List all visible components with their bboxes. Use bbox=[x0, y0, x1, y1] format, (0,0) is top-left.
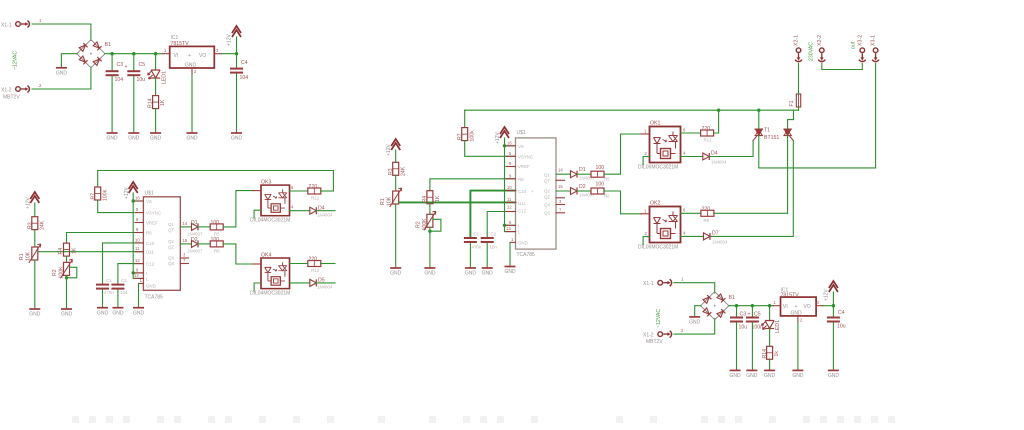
pin number 15 bbox=[558, 184, 563, 189]
svg-text:220: 220 bbox=[702, 126, 711, 132]
label R3 bbox=[388, 168, 394, 175]
svg-text:DIL06MOC3021M: DIL06MOC3021M bbox=[638, 245, 678, 251]
pin name Q2 bbox=[544, 189, 550, 194]
value 10K bbox=[387, 196, 393, 206]
svg-text:3: 3 bbox=[559, 199, 562, 204]
svg-text:R1: R1 bbox=[380, 198, 386, 205]
pin stub OK4-1 bbox=[253, 263, 261, 265]
svg-text:1N4004: 1N4004 bbox=[711, 160, 727, 165]
diode D7 bbox=[704, 233, 711, 240]
wire R2 wiper loop bbox=[430, 219, 441, 231]
pin name Q2b bbox=[544, 195, 550, 200]
wire R1 to gnd bbox=[34, 260, 36, 309]
value 220 bbox=[702, 126, 711, 132]
bridge rectifier B1 bbox=[701, 292, 729, 320]
label C3 bbox=[740, 312, 747, 318]
pin number 1 bbox=[774, 300, 777, 305]
svg-text:VSYNC: VSYNC bbox=[518, 155, 533, 160]
gate lead T2 bbox=[790, 137, 793, 141]
svg-text:+12V: +12V bbox=[124, 187, 130, 199]
svg-text:9: 9 bbox=[136, 227, 139, 232]
resistor R3 bbox=[393, 162, 399, 175]
label X3-1 bbox=[871, 35, 877, 46]
wire R2 to gnd bbox=[66, 275, 68, 309]
junction node VS bbox=[132, 199, 135, 202]
pin stub OK2-2 tail bbox=[643, 237, 649, 245]
svg-text:R14: R14 bbox=[148, 98, 154, 108]
svg-text:BT151: BT151 bbox=[764, 135, 779, 141]
pin stub QZ bbox=[180, 263, 188, 265]
pin number 2 bbox=[681, 328, 684, 333]
svg-text:12: 12 bbox=[135, 258, 140, 263]
svg-text:OK3: OK3 bbox=[261, 180, 271, 186]
label C5 bbox=[139, 62, 146, 68]
svg-text:C12: C12 bbox=[518, 209, 527, 214]
pin name C10 bbox=[146, 241, 155, 246]
wire VS pin bbox=[505, 145, 516, 147]
svg-text:220: 220 bbox=[702, 206, 711, 212]
pin stub GND bbox=[191, 68, 193, 74]
wire C2 to gnd bbox=[117, 290, 119, 308]
ground bbox=[133, 308, 145, 317]
svg-text:QT: QT bbox=[544, 179, 550, 184]
value 24K bbox=[40, 220, 46, 230]
svg-text:8: 8 bbox=[509, 161, 512, 166]
value 100K bbox=[59, 266, 65, 279]
label C1 bbox=[474, 232, 480, 237]
label R1 bbox=[19, 253, 25, 260]
label C3 bbox=[117, 62, 124, 68]
op-amp U$1 TCA785 box bbox=[143, 197, 180, 290]
pin stub VI bbox=[774, 305, 781, 307]
wire T1 MT2 to rail bbox=[758, 110, 760, 128]
junction node I bbox=[132, 271, 135, 274]
ground bbox=[56, 68, 68, 77]
svg-text:C4: C4 bbox=[241, 60, 248, 66]
svg-text:24K: 24K bbox=[401, 166, 407, 176]
ground bbox=[746, 370, 758, 379]
wire T1 MT1 down bbox=[759, 136, 876, 168]
wire OK4 to D5 bbox=[290, 282, 310, 284]
pin name QU bbox=[544, 203, 550, 208]
junction node rail T1 bbox=[757, 109, 760, 112]
svg-text:R3: R3 bbox=[388, 168, 394, 175]
svg-text:1: 1 bbox=[164, 48, 167, 53]
capacitor C4 bbox=[827, 317, 840, 323]
pin stub VSYNC bbox=[135, 212, 143, 214]
svg-text:2: 2 bbox=[681, 328, 684, 333]
pin stub VS bbox=[135, 200, 143, 202]
svg-text:QS: QS bbox=[168, 261, 174, 266]
net label 230VAC bbox=[809, 42, 815, 61]
pin stub QU bbox=[180, 257, 188, 259]
label C2 bbox=[491, 232, 497, 237]
supply +12V at VS bbox=[500, 127, 509, 138]
label R6 bbox=[604, 193, 610, 198]
pin name VREF bbox=[146, 221, 158, 226]
svg-text:10: 10 bbox=[507, 185, 512, 190]
svg-text:R5: R5 bbox=[214, 232, 220, 237]
svg-text:6: 6 bbox=[683, 128, 686, 133]
pin name I bbox=[518, 224, 519, 229]
value 1K bbox=[72, 247, 78, 254]
wire C3 to gnd bbox=[111, 76, 113, 133]
IC1 regulator box bbox=[781, 297, 817, 316]
wire T2 MT1 down bbox=[714, 136, 788, 214]
svg-text:24K: 24K bbox=[40, 220, 46, 230]
svg-text:DIL06MOC3021M: DIL06MOC3021M bbox=[638, 165, 678, 171]
svg-text:QT: QT bbox=[168, 228, 174, 233]
label OK4 bbox=[261, 253, 271, 259]
capacitor C2 bbox=[481, 237, 494, 243]
value 1K bbox=[435, 195, 441, 202]
label U$1 bbox=[145, 191, 154, 197]
junction node VS bbox=[503, 144, 506, 147]
pin number 1 bbox=[511, 237, 514, 242]
svg-text:C3: C3 bbox=[117, 62, 124, 68]
capacitor C5 bbox=[127, 70, 140, 76]
wire X1-2 to bridge bbox=[32, 67, 91, 89]
pin stub VS bbox=[506, 145, 516, 147]
wire R14 to gnd bbox=[769, 359, 771, 370]
svg-text:X3-1: X3-1 bbox=[871, 35, 877, 46]
wire T2 gate down bbox=[710, 141, 793, 237]
svg-text:+12V: +12V bbox=[227, 34, 233, 46]
svg-text:C1: C1 bbox=[106, 278, 112, 283]
resistor R13 bbox=[308, 261, 321, 267]
diode D1 bbox=[571, 171, 578, 178]
pin name VS bbox=[146, 199, 152, 204]
pin name Q1 bbox=[168, 222, 174, 227]
svg-text:9: 9 bbox=[509, 173, 512, 178]
wire R4 to R2 bbox=[429, 204, 431, 215]
pin stub OK3-1 bbox=[253, 190, 261, 192]
wire U11 row bbox=[38, 251, 143, 253]
wire R14 to gnd bbox=[155, 109, 157, 133]
svg-text:GND: GND bbox=[518, 241, 528, 246]
svg-text:X1-1: X1-1 bbox=[643, 281, 654, 287]
pin name Q2b bbox=[168, 245, 174, 250]
svg-text:R8: R8 bbox=[704, 218, 710, 223]
svg-text:1k: 1k bbox=[774, 351, 780, 357]
pin stub Q1b bbox=[556, 179, 565, 181]
wire D4 out bbox=[316, 210, 335, 212]
optocoupler OK3 bbox=[261, 185, 290, 216]
svg-text:C10: C10 bbox=[146, 241, 155, 246]
label F1 bbox=[789, 100, 795, 106]
svg-text:MBT2V: MBT2V bbox=[646, 339, 663, 345]
svg-text:+: + bbox=[125, 64, 128, 70]
pin number 4 bbox=[683, 151, 686, 156]
wire D4 to T1 gate bbox=[709, 141, 753, 157]
svg-text:C2: C2 bbox=[491, 232, 497, 237]
value 100 bbox=[211, 237, 220, 243]
pin number 2 bbox=[800, 318, 803, 323]
pin number 6 bbox=[509, 220, 512, 225]
pin number 12 bbox=[507, 204, 512, 209]
svg-text:QX: QX bbox=[168, 256, 174, 261]
svg-text:VS: VS bbox=[518, 144, 524, 149]
resistor R14 bbox=[153, 96, 159, 109]
svg-text:VO: VO bbox=[199, 53, 206, 59]
svg-text:R1: R1 bbox=[19, 253, 25, 260]
svg-text:R12: R12 bbox=[311, 196, 320, 201]
label D2 bbox=[191, 237, 198, 243]
svg-text:R9: R9 bbox=[146, 231, 152, 236]
svg-text:DIL04MOC3021M: DIL04MOC3021M bbox=[250, 291, 290, 297]
wire R2 to gnd bbox=[429, 227, 431, 268]
svg-text:10: 10 bbox=[135, 237, 140, 242]
resistor R7 bbox=[95, 187, 101, 200]
wire LED to R14 bbox=[769, 329, 771, 347]
label R13 bbox=[311, 268, 320, 273]
svg-text:X3-2: X3-2 bbox=[857, 35, 863, 46]
junction node R2 bbox=[65, 276, 68, 279]
pin number 12 bbox=[135, 258, 140, 263]
value 1N4007 bbox=[579, 192, 595, 197]
potentiometer R1 bbox=[29, 244, 41, 263]
svg-text:R4: R4 bbox=[422, 196, 428, 203]
pin stub C10 bbox=[135, 242, 143, 244]
label C4 bbox=[241, 60, 248, 66]
value 1N4007 bbox=[187, 232, 203, 237]
value MOC3021M bbox=[638, 165, 678, 171]
wire fused sync rail bbox=[465, 109, 799, 111]
pin name R9 bbox=[518, 177, 524, 182]
label OK3 bbox=[261, 180, 271, 186]
svg-text:1N4004: 1N4004 bbox=[317, 213, 333, 218]
wire C4 to gnd bbox=[832, 323, 834, 371]
value 100k bbox=[470, 130, 476, 142]
svg-text:2: 2 bbox=[645, 231, 648, 236]
wire L pin loop bbox=[505, 225, 516, 231]
value 100 bbox=[596, 182, 605, 188]
junction node LED bbox=[154, 52, 157, 55]
bridge rectifier B1 bbox=[77, 40, 105, 68]
svg-text:100K: 100K bbox=[422, 218, 428, 231]
svg-text:X2-2: X2-2 bbox=[817, 35, 823, 46]
fuse F1 bbox=[796, 94, 800, 107]
svg-text:100: 100 bbox=[211, 237, 220, 243]
pin name C12 bbox=[146, 262, 155, 267]
pin number 2 bbox=[39, 83, 42, 88]
pin name U11 bbox=[146, 250, 154, 255]
wire X1-2 to bridge bbox=[674, 319, 715, 335]
resistor R6 bbox=[210, 241, 223, 247]
pin name GND bbox=[146, 284, 156, 289]
svg-text:Q2: Q2 bbox=[168, 239, 174, 244]
wire LED drop bbox=[155, 54, 157, 70]
value TCA785 bbox=[517, 252, 536, 258]
pin stub U11 bbox=[135, 251, 143, 253]
svg-text:U11: U11 bbox=[146, 250, 154, 255]
junction node C3 bbox=[110, 52, 113, 55]
pin number 6 bbox=[683, 128, 686, 133]
label R4 bbox=[58, 248, 64, 255]
pin stub QZ bbox=[556, 212, 565, 214]
wire R12 to rail bbox=[321, 190, 334, 192]
connector X3-1 bbox=[872, 48, 879, 62]
svg-text:F1: F1 bbox=[789, 100, 795, 106]
pin number 5 bbox=[509, 151, 512, 156]
wire sync rail bbox=[98, 171, 334, 192]
pin text VI bbox=[174, 53, 179, 59]
value MOC3021M bbox=[638, 245, 678, 251]
svg-text:C1: C1 bbox=[474, 232, 480, 237]
pin name Q2 bbox=[168, 239, 174, 244]
label B1 bbox=[729, 295, 735, 301]
potentiometer R2 bbox=[424, 211, 436, 230]
junction node C4 bbox=[235, 52, 238, 55]
pin number 11 bbox=[135, 246, 140, 251]
capacitor C5 bbox=[746, 317, 759, 323]
resistor R8 bbox=[701, 210, 714, 216]
resistor R3 bbox=[32, 217, 38, 230]
ground bbox=[504, 267, 516, 276]
wire LED to R14 bbox=[155, 78, 157, 96]
connector X3-2 bbox=[859, 48, 866, 62]
value 10u bbox=[837, 324, 846, 330]
pin number 1 bbox=[164, 48, 167, 53]
potentiometer R1 bbox=[390, 188, 402, 207]
svg-text:U$1: U$1 bbox=[145, 191, 154, 197]
label +12V bbox=[124, 187, 130, 199]
svg-text:R6: R6 bbox=[214, 249, 220, 254]
wire rail to R7 bbox=[464, 110, 466, 127]
capacitor C3 bbox=[730, 317, 743, 323]
value 7815TV bbox=[171, 41, 190, 47]
wire OK3 to D4 bbox=[290, 210, 310, 212]
wire +12V stub bbox=[832, 292, 834, 306]
svg-text:100: 100 bbox=[596, 182, 605, 188]
svg-text:1K: 1K bbox=[72, 247, 78, 254]
svg-text:6: 6 bbox=[509, 220, 512, 225]
diode D2 bbox=[571, 188, 578, 195]
wire C3 drop bbox=[111, 54, 113, 70]
diode D4 bbox=[310, 207, 317, 214]
svg-text:1: 1 bbox=[511, 237, 514, 242]
pin number 10 bbox=[135, 237, 140, 242]
value TCA785 bbox=[145, 295, 164, 301]
svg-text:1: 1 bbox=[774, 300, 777, 305]
wire C5 to gnd bbox=[133, 76, 135, 133]
wire C5 to gnd bbox=[751, 323, 753, 371]
svg-text:VS: VS bbox=[146, 199, 152, 204]
ground bbox=[792, 370, 804, 379]
svg-text:104: 104 bbox=[120, 290, 128, 295]
wire I pin bbox=[133, 272, 143, 274]
svg-text:8: 8 bbox=[136, 217, 139, 222]
svg-text:1: 1 bbox=[644, 129, 647, 134]
svg-text:10u: 10u bbox=[739, 325, 748, 331]
label R14 bbox=[148, 98, 154, 108]
wire R7 to VSYNC bbox=[465, 141, 516, 157]
svg-text:C5: C5 bbox=[139, 62, 146, 68]
svg-text:6: 6 bbox=[683, 208, 686, 213]
label +12V bbox=[26, 197, 32, 209]
svg-text:X1-2: X1-2 bbox=[1, 88, 12, 94]
junction node C5 bbox=[132, 52, 135, 55]
diode D1 bbox=[192, 223, 199, 230]
optocoupler OK2 bbox=[650, 207, 681, 243]
wire +12V to VS bbox=[132, 193, 134, 201]
value 100n bbox=[752, 325, 764, 331]
value 470n bbox=[104, 290, 114, 295]
pin number 7 bbox=[559, 207, 562, 212]
ground bbox=[689, 317, 701, 326]
svg-text:4: 4 bbox=[683, 151, 686, 156]
svg-text:R7: R7 bbox=[457, 133, 463, 140]
svg-text:1: 1 bbox=[39, 18, 42, 23]
label D4 bbox=[711, 151, 718, 157]
resistor R4 bbox=[64, 243, 70, 256]
pin name C12 bbox=[518, 209, 527, 214]
svg-text:OK2: OK2 bbox=[650, 201, 660, 207]
pin stub L bbox=[135, 277, 143, 279]
svg-text:220: 220 bbox=[309, 184, 318, 190]
label R12 bbox=[704, 138, 713, 143]
pin number 6 bbox=[683, 208, 686, 213]
capacitor C1 bbox=[96, 284, 109, 290]
wire L pin loop bbox=[133, 273, 143, 279]
pin number 5 bbox=[136, 207, 139, 212]
svg-text:QZ: QZ bbox=[544, 195, 550, 200]
svg-text:10u: 10u bbox=[137, 77, 146, 83]
pin number 16 bbox=[507, 140, 512, 145]
svg-text:TCA785: TCA785 bbox=[145, 295, 164, 301]
capacitor C1 bbox=[464, 237, 477, 243]
svg-text:U11: U11 bbox=[518, 201, 526, 206]
pin stub R9 bbox=[135, 232, 143, 234]
resistor R6 bbox=[591, 188, 604, 194]
value MOC3021M bbox=[250, 218, 290, 224]
svg-text:R2: R2 bbox=[52, 269, 58, 276]
svg-text:15: 15 bbox=[183, 238, 188, 243]
label R5 bbox=[214, 232, 220, 237]
svg-text:R5: R5 bbox=[604, 177, 610, 182]
junction node rail R12 bbox=[717, 109, 720, 112]
svg-text:100K: 100K bbox=[59, 266, 65, 279]
resistor R12 bbox=[701, 130, 714, 136]
pin stub L bbox=[506, 231, 516, 233]
svg-text:4: 4 bbox=[683, 231, 686, 236]
svg-text:12: 12 bbox=[507, 204, 512, 209]
pin stub GND bbox=[797, 316, 799, 322]
pin name U11 bbox=[518, 201, 526, 206]
label R3 bbox=[28, 222, 34, 229]
label C5 bbox=[754, 312, 761, 318]
pin text plus bbox=[795, 304, 798, 310]
capacitor C2 bbox=[111, 284, 124, 290]
wire R2 wiper loop bbox=[67, 267, 77, 278]
value 100K bbox=[422, 218, 428, 231]
wire VS to inhibit bbox=[132, 201, 134, 273]
svg-text:1: 1 bbox=[681, 277, 684, 282]
wire D2 to R6 bbox=[577, 190, 591, 192]
svg-text:X2-1: X2-1 bbox=[794, 35, 800, 46]
pin name QZ bbox=[168, 261, 174, 266]
polarity plus C5 bbox=[125, 64, 128, 70]
svg-text:R4: R4 bbox=[58, 248, 64, 255]
svg-text:L: L bbox=[146, 276, 149, 281]
wire OK1 to R12 bbox=[681, 132, 701, 134]
svg-text:D1: D1 bbox=[579, 167, 586, 173]
pin text GND bbox=[185, 63, 197, 69]
wire fuse to rail bbox=[798, 107, 800, 110]
svg-text:C4: C4 bbox=[838, 310, 845, 316]
value 470n bbox=[472, 245, 482, 250]
label R4 bbox=[422, 196, 428, 203]
